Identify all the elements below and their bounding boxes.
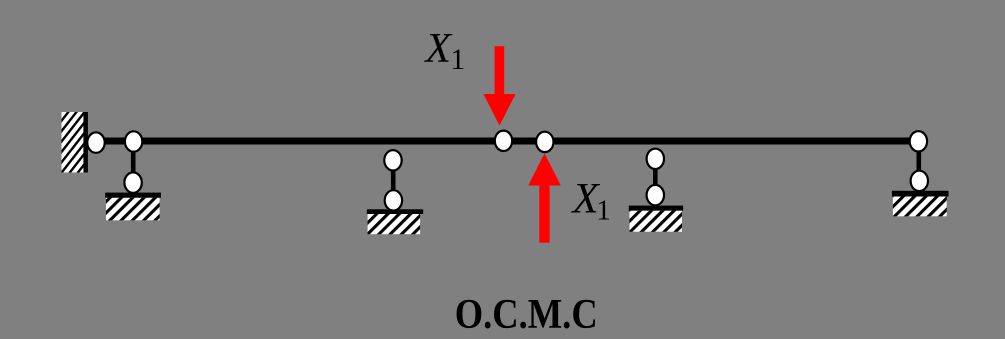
svg-text:X: X [423, 26, 453, 72]
svg-text:1: 1 [596, 194, 611, 226]
svg-text:1: 1 [450, 44, 465, 76]
svg-text:O.C.M.C: O.C.M.C [455, 291, 598, 338]
